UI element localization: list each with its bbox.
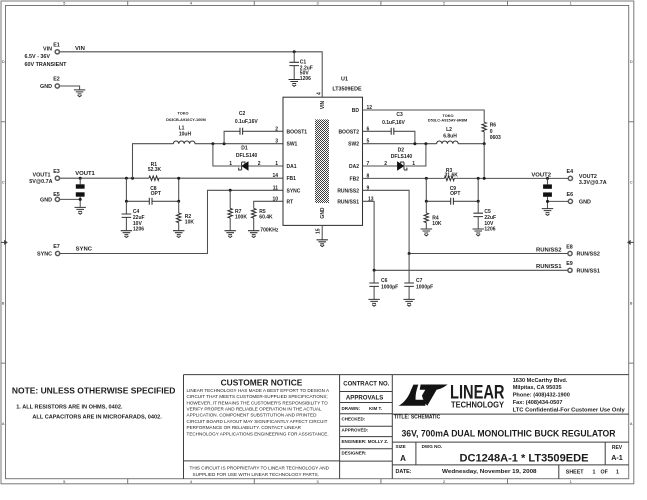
svg-text:1: 1 bbox=[616, 470, 619, 476]
node junction R4/C9 tap bbox=[425, 177, 428, 180]
capacitor C4 bbox=[122, 209, 145, 233]
svg-text:C5: C5 bbox=[484, 209, 491, 215]
svg-text:A: A bbox=[2, 422, 5, 426]
svg-text:1: 1 bbox=[593, 470, 596, 476]
svg-text:SHEET: SHEET bbox=[566, 470, 584, 476]
svg-text:E5: E5 bbox=[53, 192, 60, 198]
svg-text:VERIFY PROPER AND RELIABLE OPE: VERIFY PROPER AND RELIABLE OPERATION IN … bbox=[187, 407, 322, 412]
svg-text:2: 2 bbox=[258, 161, 261, 167]
svg-text:L1: L1 bbox=[179, 126, 185, 132]
svg-text:1630 McCarthy Blvd.: 1630 McCarthy Blvd. bbox=[513, 378, 568, 384]
svg-text:D63CB-A916CY-100M: D63CB-A916CY-100M bbox=[166, 117, 206, 122]
ground below C6 bbox=[368, 299, 379, 306]
svg-text:1206: 1206 bbox=[300, 76, 311, 82]
svg-text:D2: D2 bbox=[398, 148, 405, 154]
wire VIN bus E1 to IC pin4 corner bbox=[60, 52, 322, 97]
svg-text:C2: C2 bbox=[239, 111, 246, 117]
svg-text:TECHNOLOGY APPLICATIONS ENGINE: TECHNOLOGY APPLICATIONS ENGINEERING FOR … bbox=[187, 431, 329, 436]
svg-text:A-1: A-1 bbox=[611, 453, 623, 462]
node junction C8 right / R2 top bbox=[177, 200, 180, 203]
svg-text:DESIGNER:: DESIGNER: bbox=[342, 451, 368, 456]
svg-text:DRAWN:: DRAWN: bbox=[342, 406, 361, 411]
ground below R4 bbox=[421, 229, 432, 236]
ground at E5 bbox=[75, 207, 86, 214]
wire C4 stem bbox=[125, 201, 127, 230]
svg-text:DWG NO.: DWG NO. bbox=[422, 444, 443, 449]
resistor R2 bbox=[177, 213, 195, 226]
diode D2 bbox=[384, 148, 415, 171]
resistor R6 bbox=[482, 122, 501, 141]
node bars tap on VOUT1 bbox=[79, 177, 82, 180]
terminal E5 GND bbox=[40, 192, 60, 203]
svg-text:TOKO: TOKO bbox=[177, 111, 188, 116]
svg-text:OPT: OPT bbox=[151, 191, 161, 197]
svg-text:1: 1 bbox=[275, 161, 278, 167]
svg-text:DA1: DA1 bbox=[287, 164, 297, 170]
node junction at C1 tap bbox=[293, 50, 296, 53]
resistor R5 bbox=[252, 208, 279, 233]
svg-text:1: 1 bbox=[570, 2, 572, 6]
svg-text:10uH: 10uH bbox=[179, 132, 192, 138]
svg-text:NOTE: UNLESS OTHERWISE SPECIFI: NOTE: UNLESS OTHERWISE SPECIFIED bbox=[12, 387, 176, 396]
svg-text:10: 10 bbox=[272, 196, 278, 202]
node junction R7 tap bbox=[229, 189, 232, 192]
address block bbox=[513, 378, 626, 414]
svg-text:Milpitas, CA 95035: Milpitas, CA 95035 bbox=[513, 385, 562, 391]
svg-text:C4: C4 bbox=[133, 209, 140, 215]
capacitor C3 bbox=[382, 112, 405, 135]
svg-text:DFLS140: DFLS140 bbox=[236, 153, 258, 159]
svg-text:R6: R6 bbox=[490, 122, 497, 128]
wire FB2 row bbox=[363, 177, 568, 179]
contract column row lines bbox=[340, 392, 393, 462]
svg-text:FB1: FB1 bbox=[287, 176, 297, 182]
svg-text:RT: RT bbox=[287, 199, 294, 205]
capacitor C2 bbox=[235, 111, 258, 135]
svg-text:0.1uF,16V: 0.1uF,16V bbox=[382, 120, 405, 126]
wire R4 stem bbox=[425, 201, 427, 229]
svg-text:CHECKED:: CHECKED: bbox=[342, 417, 366, 422]
svg-text:2: 2 bbox=[443, 480, 445, 484]
wire L2 to VOUT2 node bbox=[458, 143, 484, 145]
svg-text:THIS CIRCUIT IS PROPRIETARY TO: THIS CIRCUIT IS PROPRIETARY TO LINEAR TE… bbox=[190, 465, 330, 470]
customer notice body bbox=[187, 388, 331, 436]
terminal E8 RUN/SS2 bbox=[566, 245, 600, 258]
svg-text:6.5V - 36V: 6.5V - 36V bbox=[25, 54, 51, 60]
svg-text:4: 4 bbox=[317, 92, 323, 95]
svg-text:C: C bbox=[630, 181, 633, 185]
svg-text:U1: U1 bbox=[341, 77, 348, 83]
svg-text:2: 2 bbox=[275, 126, 278, 132]
pin labels left side bbox=[287, 129, 308, 205]
terminal E3 VOUT1 bbox=[29, 169, 60, 185]
terminal E4 VOUT2 bbox=[567, 169, 607, 186]
svg-text:5: 5 bbox=[63, 480, 65, 484]
svg-text:700KHz: 700KHz bbox=[260, 228, 279, 234]
svg-text:B: B bbox=[630, 301, 633, 305]
svg-text:E1: E1 bbox=[53, 43, 60, 49]
svg-text:LTC Confidential-For Customer: LTC Confidential-For Customer Use Only bbox=[513, 407, 626, 413]
node junction C2 tap bbox=[223, 142, 226, 145]
svg-text:DFLS140: DFLS140 bbox=[391, 154, 413, 160]
wire SW1 row L1 to IC bbox=[195, 143, 283, 145]
node junction L2 out bbox=[483, 142, 486, 145]
svg-text:5: 5 bbox=[63, 2, 65, 6]
node junction D1 tap bbox=[211, 142, 214, 145]
svg-text:APPLICATION. COMPONENT SUBSTI: APPLICATION. COMPONENT SUBSTITUTION AND … bbox=[187, 413, 318, 418]
svg-text:GND: GND bbox=[40, 197, 52, 203]
svg-text:BOOST1: BOOST1 bbox=[287, 129, 308, 135]
svg-text:BD: BD bbox=[352, 108, 360, 114]
ground below C5 bbox=[473, 229, 484, 236]
zone letters right bbox=[630, 60, 633, 426]
svg-text:GND: GND bbox=[320, 207, 326, 219]
wire C6 stem bbox=[373, 270, 375, 299]
pin numbers left side bbox=[272, 126, 278, 202]
svg-text:3: 3 bbox=[316, 480, 318, 484]
terminal E2 GND bbox=[40, 77, 60, 90]
svg-text:4: 4 bbox=[190, 480, 192, 484]
inductor L2 bbox=[428, 113, 467, 144]
wire D1 leg bbox=[213, 144, 283, 166]
svg-text:OF: OF bbox=[601, 470, 609, 476]
svg-text:1000pF: 1000pF bbox=[416, 284, 433, 290]
terminal E7 SYNC bbox=[37, 244, 60, 257]
node junction C7 tap bbox=[408, 252, 411, 255]
svg-text:52.3K: 52.3K bbox=[148, 167, 162, 173]
svg-text:60.4K: 60.4K bbox=[259, 215, 273, 221]
terminal E9 RUN/SS1 bbox=[566, 261, 600, 274]
svg-text:100K: 100K bbox=[235, 215, 247, 221]
svg-text:Fax: (408)434-0507: Fax: (408)434-0507 bbox=[513, 400, 563, 406]
svg-text:5V@0.7A: 5V@0.7A bbox=[29, 179, 52, 185]
svg-text:ALL CAPACITORS ARE IN MICROFAR: ALL CAPACITORS ARE IN MICROFARADS, 0402. bbox=[32, 414, 162, 420]
op-amp U1 IC body LT3509EDE bbox=[283, 77, 363, 226]
svg-text:D: D bbox=[630, 60, 633, 64]
node junction C8 left bbox=[125, 200, 128, 203]
svg-text:3.3V@0.7A: 3.3V@0.7A bbox=[579, 180, 607, 186]
svg-text:SUPPLIED FOR USE WITH LINEAR T: SUPPLIED FOR USE WITH LINEAR TECHNOLOGY … bbox=[193, 472, 319, 477]
ground below R5 bbox=[248, 231, 259, 238]
svg-text:D53LC-A915AY-6R8M: D53LC-A915AY-6R8M bbox=[428, 118, 467, 123]
svg-text:CIRCUIT THAT MEETS CUSTOMER-SU: CIRCUIT THAT MEETS CUSTOMER-SUPPLIED SPE… bbox=[187, 394, 328, 399]
svg-text:OPT: OPT bbox=[450, 191, 460, 197]
svg-text:C6: C6 bbox=[381, 278, 388, 284]
svg-text:VIN: VIN bbox=[320, 100, 326, 109]
ground below U1 bbox=[317, 240, 328, 247]
resistor R3 bbox=[444, 168, 458, 181]
svg-text:LT3509EDE: LT3509EDE bbox=[332, 86, 362, 92]
svg-text:Phone: (408)432-1900: Phone: (408)432-1900 bbox=[513, 393, 570, 399]
wire C2 loop bbox=[224, 131, 283, 143]
svg-text:E9: E9 bbox=[566, 261, 573, 267]
zone ticks top band bbox=[128, 1, 508, 6]
resistor R1 bbox=[148, 162, 162, 180]
zone numbers top bbox=[63, 2, 572, 6]
svg-text:LINEAR TECHNOLOGY HAS MADE A B: LINEAR TECHNOLOGY HAS MADE A BEST EFFORT… bbox=[187, 388, 331, 393]
zone letters left bbox=[2, 60, 5, 426]
svg-text:GND: GND bbox=[579, 199, 591, 205]
wire E2 to ground bbox=[60, 86, 80, 90]
svg-text:VOUT1: VOUT1 bbox=[33, 172, 51, 178]
svg-text:E4: E4 bbox=[567, 169, 574, 175]
svg-text:ENGINEER: MOLLY Z.: ENGINEER: MOLLY Z. bbox=[342, 439, 389, 444]
svg-text:1. ALL RESISTORS ARE IN OHMS,: 1. ALL RESISTORS ARE IN OHMS, 0402. bbox=[16, 405, 123, 411]
svg-text:CUSTOMER NOTICE: CUSTOMER NOTICE bbox=[221, 378, 303, 388]
node junction E5 bbox=[79, 198, 82, 201]
svg-text:E2: E2 bbox=[53, 77, 60, 83]
node junction FB1 bbox=[177, 177, 180, 180]
node junction C9 right / C5 tap bbox=[477, 177, 480, 180]
wire BOOST2 C3 loop bbox=[363, 131, 415, 143]
svg-text:1: 1 bbox=[229, 161, 232, 167]
wire C9 row bbox=[426, 178, 478, 201]
svg-text:14: 14 bbox=[272, 173, 278, 179]
svg-text:4: 4 bbox=[190, 2, 192, 6]
wire RUN/SS1 run bbox=[363, 201, 568, 270]
svg-text:HOWEVER, IT REMAINS THE CUSTOM: HOWEVER, IT REMAINS THE CUSTOMER'S RESPO… bbox=[187, 400, 329, 405]
center marker arrow left bbox=[1, 241, 7, 245]
customer notice separator bbox=[184, 460, 340, 462]
svg-text:C: C bbox=[2, 181, 5, 185]
wire C5 stem bbox=[477, 201, 479, 229]
svg-text:DATE:: DATE: bbox=[396, 469, 412, 475]
svg-text:RUN/SS1: RUN/SS1 bbox=[337, 199, 359, 205]
inductor L1 bbox=[166, 111, 206, 144]
svg-text:31.6K: 31.6K bbox=[445, 173, 459, 179]
svg-text:CIRCUIT BOARD LAYOUT MAY SIGNI: CIRCUIT BOARD LAYOUT MAY SIGNIFICANTLY A… bbox=[187, 419, 328, 424]
svg-text:VIN: VIN bbox=[75, 46, 85, 52]
svg-text:RUN/SS2: RUN/SS2 bbox=[536, 247, 562, 253]
svg-text:VOUT1: VOUT1 bbox=[75, 171, 95, 177]
svg-text:D: D bbox=[2, 60, 5, 64]
svg-text:C7: C7 bbox=[416, 278, 423, 284]
title block outline bbox=[184, 375, 629, 479]
svg-text:E3: E3 bbox=[53, 169, 60, 175]
terminal E6 GND bbox=[567, 192, 591, 205]
ground at E2 bbox=[74, 90, 85, 97]
svg-text:B: B bbox=[2, 301, 5, 305]
svg-text:RUN/SS1: RUN/SS1 bbox=[536, 264, 562, 270]
node junction E6 bbox=[546, 200, 549, 203]
svg-text:Wednesday, November 19, 2008: Wednesday, November 19, 2008 bbox=[442, 469, 537, 475]
svg-text:L2: L2 bbox=[446, 127, 452, 133]
svg-text:SW1: SW1 bbox=[287, 142, 298, 148]
wire SW2 row bbox=[363, 143, 437, 145]
ground below C7 bbox=[403, 299, 414, 306]
svg-text:C3: C3 bbox=[396, 112, 403, 118]
svg-text:CONTRACT NO.: CONTRACT NO. bbox=[343, 381, 389, 387]
node junction C3 tap bbox=[413, 142, 416, 145]
wire BD row pin12 bbox=[363, 110, 485, 144]
wire RT leg bbox=[254, 201, 283, 230]
svg-text:10K: 10K bbox=[185, 220, 195, 226]
wire R2 stem bbox=[178, 201, 180, 230]
svg-text:0.1uF,16V: 0.1uF,16V bbox=[235, 119, 258, 125]
svg-text:10K: 10K bbox=[432, 221, 442, 227]
svg-text:APPROVED:: APPROVED: bbox=[342, 428, 369, 433]
svg-text:RUN/SS2: RUN/SS2 bbox=[337, 188, 359, 194]
U1 exposed pad bbox=[315, 119, 329, 203]
capacitor C5 bbox=[473, 209, 496, 233]
svg-text:SIZE: SIZE bbox=[396, 444, 406, 449]
svg-text:15: 15 bbox=[316, 228, 322, 234]
capacitor C8 bbox=[149, 186, 161, 205]
wire VOUT2 vertical bbox=[483, 144, 485, 179]
svg-text:A: A bbox=[400, 454, 406, 463]
zone ticks left band bbox=[1, 122, 6, 363]
resistor R7 bbox=[228, 208, 247, 220]
LT logo mark bbox=[399, 385, 448, 406]
wire RUN/SS2 run bbox=[363, 190, 568, 253]
ground below C4 bbox=[121, 231, 132, 238]
svg-text:E6: E6 bbox=[567, 192, 574, 198]
diode D1 bbox=[229, 146, 261, 171]
node bars tap VOUT2 bbox=[546, 177, 549, 180]
wire E5 to bars node bbox=[60, 199, 80, 207]
ground below R2 bbox=[173, 231, 184, 238]
svg-text:DC1248A-1 * LT3509EDE: DC1248A-1 * LT3509EDE bbox=[460, 452, 589, 464]
node junction D2 tap bbox=[424, 142, 427, 145]
node junction C9 right bbox=[477, 200, 480, 203]
svg-text:SYNC: SYNC bbox=[76, 247, 93, 253]
svg-text:60V TRANSIENT: 60V TRANSIENT bbox=[25, 62, 68, 68]
svg-text:SW2: SW2 bbox=[348, 142, 359, 148]
wire D2 leg bbox=[363, 144, 426, 166]
wire R7 stem bbox=[229, 190, 231, 230]
svg-text:RUN/SS2: RUN/SS2 bbox=[577, 252, 600, 258]
svg-text:GND: GND bbox=[40, 84, 52, 90]
svg-text:E8: E8 bbox=[566, 245, 573, 251]
ground at E6 bbox=[542, 209, 553, 216]
svg-text:3: 3 bbox=[316, 2, 318, 6]
capacitor C7 bbox=[404, 278, 433, 290]
svg-text:SYNC: SYNC bbox=[37, 252, 52, 258]
title area row lines bbox=[392, 414, 628, 479]
svg-text:TITLE: SCHEMATIC: TITLE: SCHEMATIC bbox=[394, 414, 441, 420]
wire GND stub bbox=[321, 225, 323, 239]
svg-text:2: 2 bbox=[384, 161, 387, 167]
svg-text:PERFORMANCE OR RELIABILITY. C: PERFORMANCE OR RELIABILITY. CONTACT LINE… bbox=[187, 425, 302, 430]
node junction C4/C8 tap bbox=[125, 177, 128, 180]
zone ticks right band bbox=[629, 122, 634, 363]
chip bead component at E4/E6 bbox=[543, 178, 552, 201]
customer notice footer bbox=[190, 465, 330, 477]
center marker arrow right bbox=[628, 241, 634, 245]
node junction L1 tap bbox=[131, 177, 134, 180]
svg-text:1206: 1206 bbox=[133, 227, 144, 233]
svg-text:BOOST2: BOOST2 bbox=[338, 129, 359, 135]
wire L1 left leg bbox=[133, 144, 174, 179]
ground below R7 bbox=[225, 231, 236, 238]
wire R1 to FB1 pin bbox=[159, 177, 283, 179]
capacitor C6 bbox=[369, 278, 398, 290]
svg-text:APPROVALS: APPROVALS bbox=[346, 395, 384, 401]
node junction VOUT2 column bbox=[483, 177, 486, 180]
svg-text:1: 1 bbox=[570, 480, 572, 484]
svg-text:0603: 0603 bbox=[490, 135, 501, 141]
svg-text:1000pF: 1000pF bbox=[381, 284, 398, 290]
chip bead component at E3/E5 bbox=[76, 178, 85, 199]
svg-text:TECHNOLOGY: TECHNOLOGY bbox=[451, 399, 504, 409]
wire VOUT1 row E3 to R1 bbox=[60, 177, 149, 179]
wire SYNC bus bbox=[60, 190, 283, 253]
svg-text:FB2: FB2 bbox=[350, 176, 360, 182]
capacitor C9 bbox=[450, 186, 461, 205]
resistor R4 bbox=[424, 213, 442, 227]
svg-text:KIM T.: KIM T. bbox=[369, 406, 382, 411]
node junction C6 tap bbox=[373, 269, 376, 272]
capacitor C1 bbox=[289, 60, 312, 83]
svg-text:1: 1 bbox=[412, 161, 415, 167]
ground below C1 bbox=[289, 80, 300, 87]
pin numbers right side bbox=[367, 105, 374, 202]
svg-text:VIN: VIN bbox=[43, 47, 52, 53]
wire E6 to bars node bbox=[548, 201, 568, 208]
svg-text:DA2: DA2 bbox=[349, 164, 359, 170]
wire C1 stem bbox=[293, 52, 295, 80]
svg-text:D1: D1 bbox=[241, 146, 248, 152]
wire C8 row bbox=[126, 178, 178, 201]
svg-text:36V, 700mA DUAL MONOLITHIC BUC: 36V, 700mA DUAL MONOLITHIC BUCK REGULATO… bbox=[402, 428, 616, 438]
svg-text:E7: E7 bbox=[53, 244, 60, 250]
svg-text:SYNC: SYNC bbox=[287, 188, 301, 194]
svg-text:A: A bbox=[630, 422, 633, 426]
node junction C9 left bbox=[425, 200, 428, 203]
svg-text:11: 11 bbox=[273, 185, 279, 191]
svg-text:RUN/SS1: RUN/SS1 bbox=[577, 268, 600, 274]
wire C7 stem bbox=[408, 254, 410, 300]
zone numbers bottom bbox=[63, 480, 572, 484]
svg-text:1206: 1206 bbox=[484, 227, 495, 233]
svg-text:2: 2 bbox=[443, 2, 445, 6]
zone ticks bottom band bbox=[128, 479, 508, 484]
svg-text:3: 3 bbox=[275, 139, 278, 145]
terminal E1 VIN bbox=[25, 43, 68, 69]
pin labels right side bbox=[337, 108, 359, 205]
svg-text:6.8uH: 6.8uH bbox=[443, 133, 457, 139]
svg-text:REV: REV bbox=[612, 445, 623, 451]
